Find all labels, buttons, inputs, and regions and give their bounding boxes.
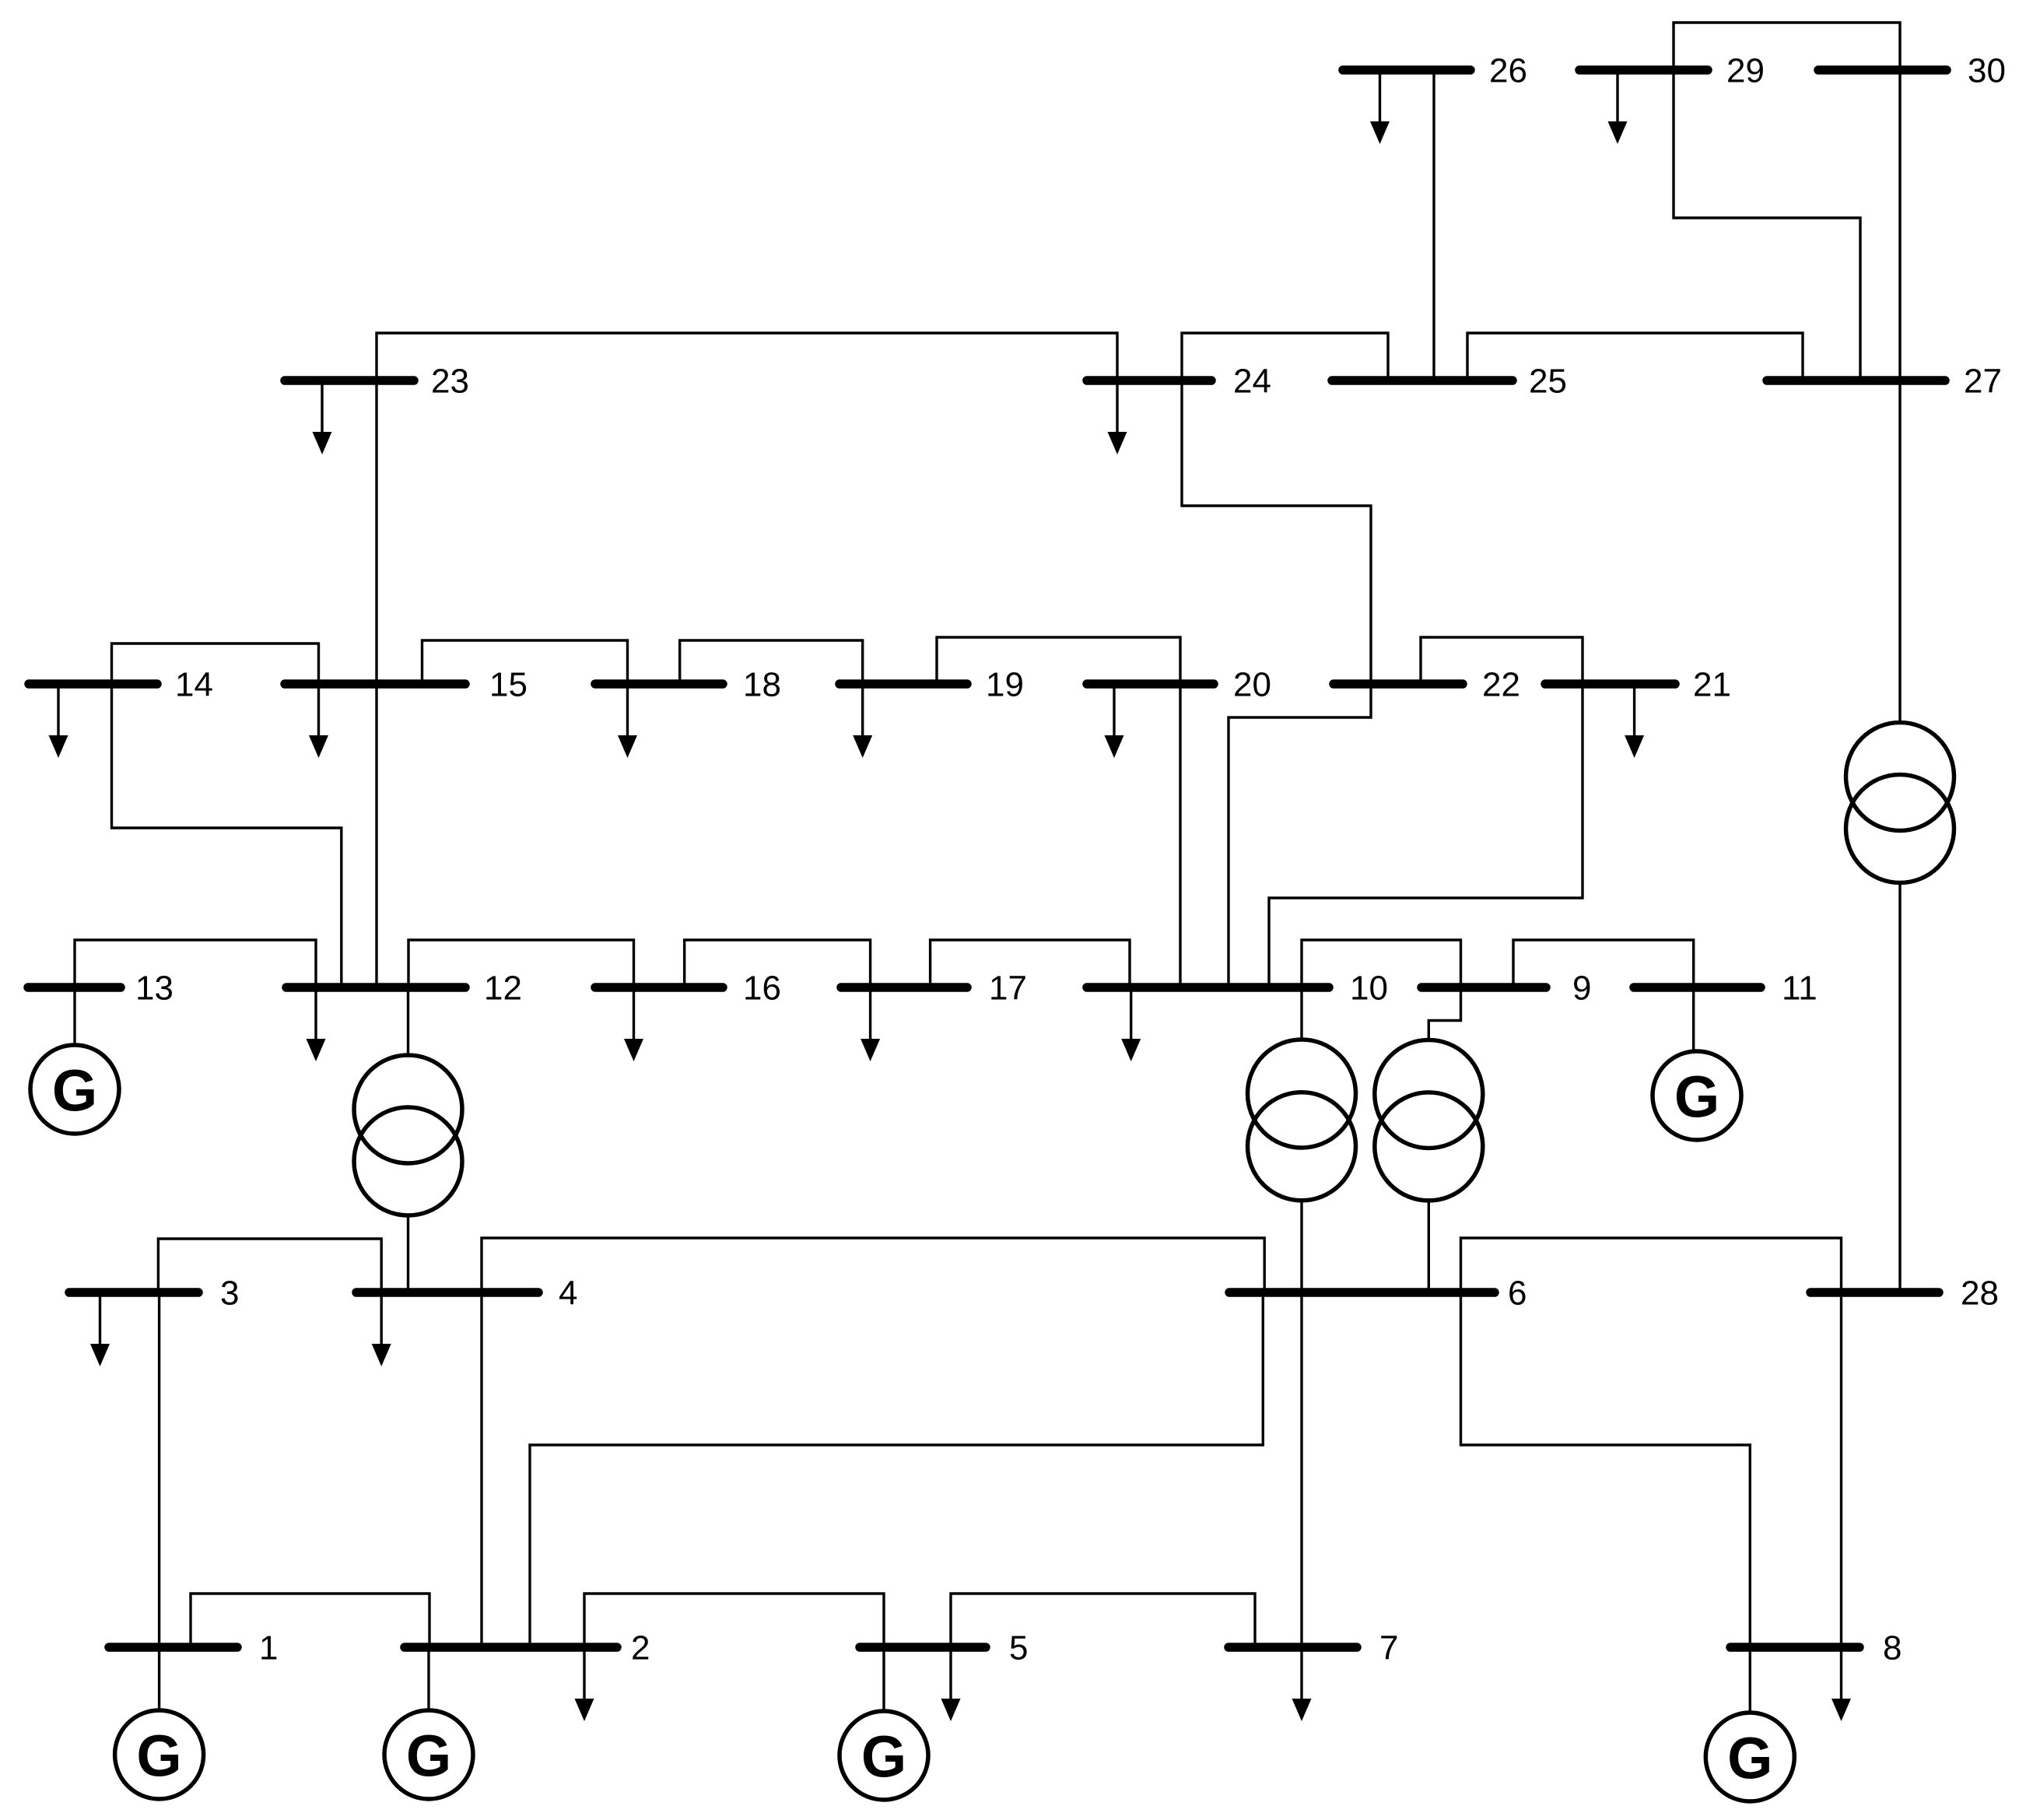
- generator G at bus 11: [1653, 1051, 1741, 1140]
- wire 2-5: [584, 1594, 884, 1647]
- load arrow at bus 19: [853, 684, 872, 758]
- bus 19 bar: [839, 679, 967, 689]
- bus 27 bar: [1767, 376, 1945, 385]
- svg-text:5: 5: [1009, 1629, 1028, 1667]
- wire 15-23: [375, 380, 377, 684]
- bus 25 bar: [1332, 376, 1512, 385]
- load arrow at bus 21: [1625, 684, 1644, 758]
- load arrow at bus 2: [575, 1647, 594, 1721]
- load arrow at bus 29: [1608, 70, 1628, 144]
- transformer T6-10 (6-10): [1248, 1040, 1356, 1201]
- wire 3-4: [158, 1239, 381, 1292]
- transformer T27-28 (27-28): [1846, 723, 1954, 883]
- bus 7 bar: [1229, 1643, 1357, 1652]
- svg-text:16: 16: [743, 970, 781, 1008]
- wire 12-16: [408, 940, 634, 987]
- load arrow at bus 5: [941, 1647, 961, 1721]
- wire 10-17: [931, 940, 1130, 987]
- bus 30 bar: [1818, 65, 1947, 75]
- svg-text:6: 6: [1508, 1275, 1527, 1313]
- svg-text:4: 4: [559, 1275, 577, 1313]
- wire 2-6: [530, 1292, 1263, 1647]
- wire 22-24: [1182, 380, 1371, 684]
- wire bus11 to G: [1692, 987, 1695, 1051]
- svg-text:18: 18: [743, 666, 781, 704]
- bus 9 bar: [1421, 983, 1546, 992]
- wire 27-29: [1674, 70, 1860, 380]
- wire 12-13: [75, 940, 316, 987]
- bus 28 bar: [1810, 1288, 1939, 1297]
- svg-text:G: G: [136, 1724, 181, 1789]
- svg-text:25: 25: [1529, 363, 1567, 401]
- wire bus27 to transformer T27-28: [1898, 380, 1901, 723]
- svg-text:2: 2: [631, 1629, 650, 1667]
- load arrow at bus 8: [1831, 1647, 1851, 1721]
- svg-text:17: 17: [989, 970, 1027, 1008]
- wire 26-25: [1432, 70, 1435, 380]
- bus 15 bar: [285, 679, 465, 689]
- wire bus13 to G: [73, 987, 75, 1045]
- wire 21-22: [1421, 637, 1583, 684]
- load arrow at bus 17: [861, 987, 880, 1061]
- bus 10 bar: [1087, 983, 1329, 992]
- svg-text:29: 29: [1726, 52, 1765, 90]
- wire bus12 to transformer T12-4: [407, 987, 409, 1055]
- wire transformer T6-10 to bus6: [1300, 1200, 1302, 1292]
- svg-text:15: 15: [489, 666, 528, 704]
- load arrow at bus 26: [1370, 70, 1390, 144]
- wire 30-27: [1898, 70, 1901, 380]
- svg-text:19: 19: [986, 666, 1024, 704]
- bus 23 bar: [285, 376, 414, 385]
- bus 1 bar: [109, 1643, 237, 1652]
- generator G at bus 5: [839, 1711, 928, 1800]
- wire 12-15: [375, 684, 377, 987]
- wire 9-10: [1302, 940, 1461, 987]
- load arrow at bus 23: [313, 380, 332, 454]
- svg-text:G: G: [861, 1724, 906, 1790]
- generator G at bus 1: [115, 1710, 204, 1799]
- svg-text:14: 14: [175, 666, 213, 704]
- bus 26 bar: [1343, 65, 1470, 75]
- wire bus5 to G: [882, 1647, 885, 1711]
- bus 17 bar: [841, 983, 967, 992]
- bus 4 bar: [356, 1288, 538, 1297]
- bus 2 bar: [405, 1643, 617, 1652]
- wire bus10 to transformer T6-10: [1300, 987, 1302, 1040]
- load arrow at bus 3: [90, 1292, 110, 1366]
- wire transformer T6-9 to bus6: [1428, 1200, 1430, 1292]
- svg-text:26: 26: [1489, 52, 1527, 90]
- wire 24-25: [1182, 333, 1388, 380]
- wire 5-7: [951, 1594, 1255, 1647]
- generator G at bus 13: [30, 1045, 119, 1134]
- wire 1-2: [191, 1594, 429, 1647]
- wire bus8 to G: [1749, 1647, 1751, 1713]
- wire 19-20: [937, 637, 1180, 684]
- wire transformer T12-4 to bus4: [407, 1215, 409, 1292]
- load arrow at bus 10: [1121, 987, 1141, 1061]
- bus 29 bar: [1579, 65, 1708, 75]
- wire 25-27: [1467, 333, 1803, 380]
- wire 9-11: [1513, 940, 1694, 987]
- wire 18-19: [680, 640, 863, 684]
- svg-text:G: G: [406, 1724, 451, 1789]
- load arrow at bus 14: [49, 684, 68, 758]
- wire 10-22: [1229, 684, 1371, 987]
- svg-text:10: 10: [1350, 970, 1388, 1008]
- svg-text:28: 28: [1961, 1275, 1999, 1313]
- load arrow at bus 7: [1292, 1647, 1312, 1721]
- svg-text:11: 11: [1782, 970, 1817, 1008]
- wire bus2 to G: [427, 1647, 429, 1710]
- svg-text:13: 13: [135, 970, 174, 1008]
- load arrow at bus 12: [307, 987, 326, 1061]
- svg-text:22: 22: [1482, 666, 1520, 704]
- svg-text:12: 12: [484, 970, 522, 1008]
- generator G at bus 2: [384, 1710, 473, 1799]
- svg-text:23: 23: [431, 363, 469, 401]
- bus 3 bar: [69, 1288, 198, 1297]
- wire 23-24: [377, 333, 1117, 380]
- load arrow at bus 18: [618, 684, 637, 758]
- bus 8 bar: [1730, 1643, 1860, 1652]
- wire 6-7: [1300, 1292, 1302, 1647]
- bus 14 bar: [29, 679, 157, 689]
- bus 20 bar: [1087, 679, 1214, 689]
- transformer T12-4 (12-4): [354, 1055, 462, 1215]
- load arrow at bus 16: [624, 987, 643, 1061]
- svg-text:1: 1: [259, 1629, 278, 1667]
- transformer T6-9 (6-9): [1375, 1040, 1483, 1201]
- wire transformer T27-28 to bus28: [1898, 882, 1901, 1292]
- bus 13 bar: [28, 983, 121, 992]
- wire 29-30: [1674, 23, 1900, 70]
- svg-text:8: 8: [1883, 1629, 1902, 1667]
- svg-text:24: 24: [1233, 363, 1271, 401]
- wire 10-20: [1179, 684, 1181, 987]
- wire 10-21: [1269, 684, 1583, 987]
- svg-text:20: 20: [1233, 666, 1271, 704]
- bus 6 bar: [1229, 1288, 1495, 1297]
- bus 22 bar: [1334, 679, 1463, 689]
- wire 4-6: [482, 1238, 1264, 1292]
- wire 15-18: [422, 640, 628, 684]
- wire 2-4: [480, 1292, 482, 1647]
- load arrow at bus 15: [309, 684, 328, 758]
- bus 24 bar: [1087, 376, 1211, 385]
- wire 14-15: [112, 643, 319, 684]
- bus 16 bar: [595, 983, 723, 992]
- load arrow at bus 4: [372, 1292, 391, 1366]
- svg-text:30: 30: [1968, 52, 2006, 90]
- svg-text:9: 9: [1572, 970, 1591, 1008]
- wire 12-14: [112, 684, 342, 987]
- wire 6-28: [1461, 1238, 1842, 1292]
- bus 21 bar: [1545, 679, 1675, 689]
- svg-text:G: G: [1674, 1064, 1719, 1130]
- svg-text:21: 21: [1693, 666, 1731, 704]
- wire bus9 to transformer T6-9 (jog): [1428, 987, 1460, 1041]
- bus 11 bar: [1634, 983, 1761, 992]
- bus 12 bar: [286, 983, 465, 992]
- bus 5 bar: [860, 1643, 986, 1652]
- wire 1-3: [158, 1292, 160, 1647]
- svg-text:7: 7: [1379, 1629, 1398, 1667]
- svg-text:G: G: [52, 1058, 97, 1124]
- wire 6-8: [1461, 1292, 1751, 1647]
- load arrow at bus 20: [1105, 684, 1124, 758]
- wire bus1 to G: [158, 1647, 160, 1710]
- svg-text:G: G: [1727, 1726, 1772, 1791]
- wire 16-17: [685, 940, 871, 987]
- load arrow at bus 24: [1108, 380, 1127, 454]
- svg-text:27: 27: [1964, 363, 2002, 401]
- generator G at bus 8: [1705, 1713, 1794, 1801]
- wire 8-28: [1840, 1292, 1842, 1647]
- bus 18 bar: [595, 679, 723, 689]
- svg-text:3: 3: [220, 1275, 239, 1313]
